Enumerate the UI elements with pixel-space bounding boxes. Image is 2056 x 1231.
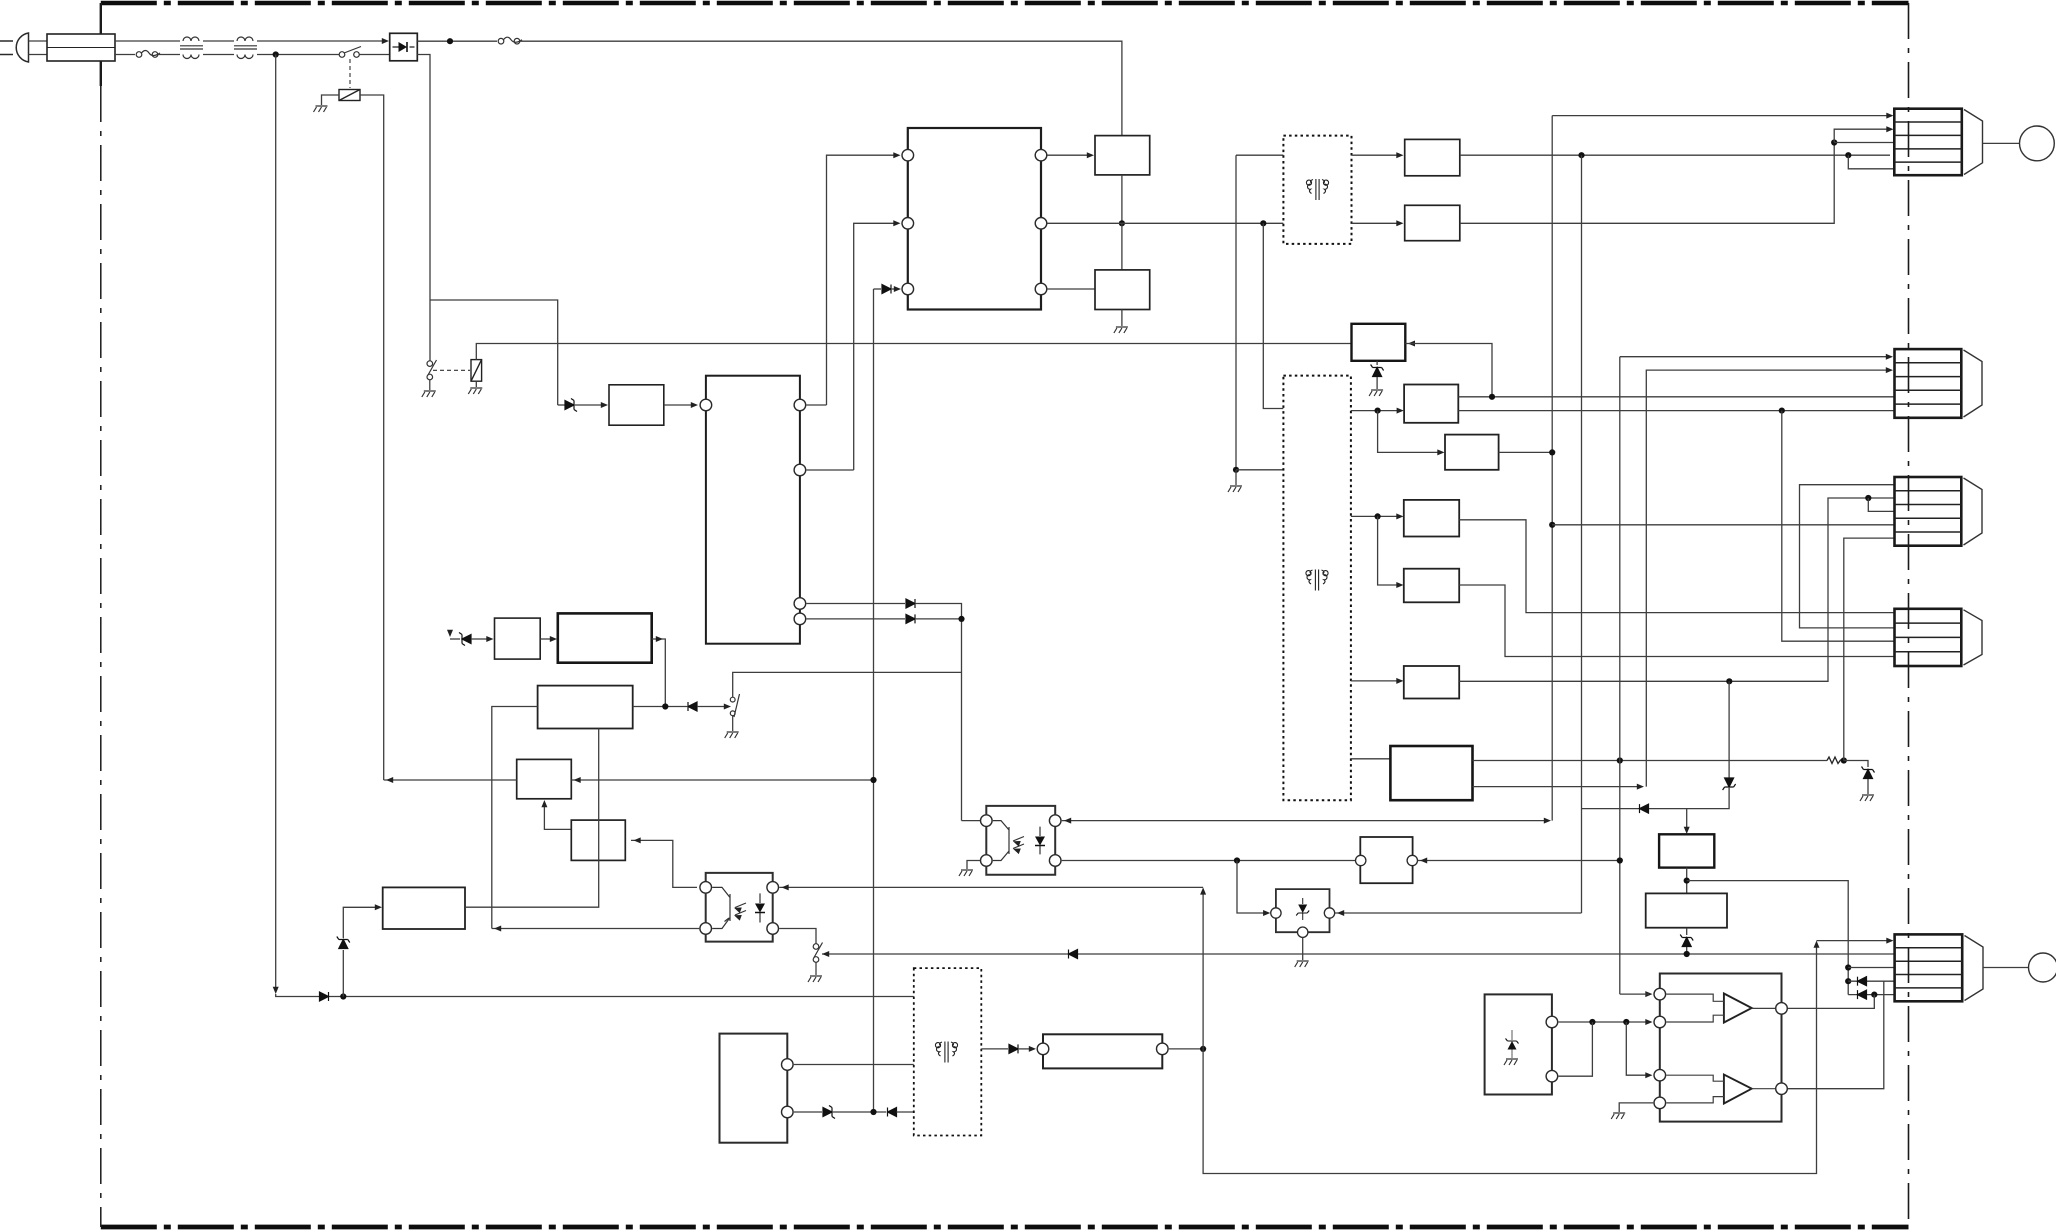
wire ZD2 to block O	[471, 638, 487, 640]
arrow into regulator M	[550, 636, 557, 642]
K pin left	[1037, 1043, 1049, 1055]
CN4 pin separators	[1895, 623, 1962, 652]
junction node B+	[447, 38, 453, 44]
junction node CN3 row2/3	[1865, 495, 1871, 501]
diode D9	[1640, 804, 1649, 813]
relay RY1 coil	[339, 90, 360, 101]
rectifier block C	[1404, 500, 1459, 537]
junction node B out	[1549, 449, 1555, 455]
arrow into PC3 left pin	[1263, 910, 1270, 916]
CN2 pin separators	[1895, 363, 1962, 404]
ground at PC3	[1295, 961, 1309, 967]
zener diode ZD4	[1371, 365, 1384, 377]
arrow into block Q	[1396, 220, 1403, 226]
arrow into CN5 row1	[1886, 938, 1893, 944]
arrow into block P	[1396, 152, 1403, 158]
CN1 pin separators	[1894, 122, 1962, 162]
wire PC1 BR to switch S4	[779, 929, 816, 944]
wire block O to regulator M	[540, 638, 551, 640]
wire A bottom output to CN2	[1458, 410, 1894, 412]
wire PC3 feed	[1237, 861, 1267, 914]
I pin bottom	[1546, 1070, 1558, 1082]
wire choke L2 to bridge (top)	[257, 40, 384, 42]
arrow into PC3 right pin	[1337, 910, 1344, 916]
wire plug to line filter	[29, 41, 48, 55]
U3 pin 5	[1776, 1003, 1788, 1015]
wire F top output rail	[1473, 760, 1828, 762]
wire CN5 row5	[1848, 994, 1894, 996]
arrow at F output corner	[1637, 784, 1644, 790]
wire R1 to relay bus corner	[384, 779, 517, 781]
wire W1 to bus1619	[1418, 860, 1620, 862]
wire G out to CN5 drops	[1687, 881, 1849, 995]
ground at primary return	[1228, 486, 1242, 492]
junction node A out / CN4 drop	[1779, 408, 1785, 414]
U1 pin 5	[1035, 218, 1047, 230]
K pin right	[1157, 1043, 1169, 1055]
wire U2 out4	[806, 618, 905, 620]
zener riser to E1	[342, 950, 344, 997]
enclosure border top	[101, 1, 1909, 6]
junction node DC bus / R1	[870, 777, 876, 783]
junction node on comm line	[1684, 951, 1690, 957]
U1 pin 4	[1035, 149, 1047, 161]
arrow down at AC sense corner	[273, 987, 279, 994]
wire corner into U1 pin3 diode	[874, 288, 882, 290]
wire diode to U1 pin3	[892, 288, 896, 290]
diode D14	[1858, 990, 1867, 999]
wire DC bus top to primary corner	[520, 41, 1122, 135]
relay RY2 coil	[471, 360, 482, 382]
U3 pin 6	[1776, 1083, 1788, 1095]
U3 pin 1	[1654, 988, 1666, 1000]
PC2 pin BL	[981, 855, 993, 867]
W1 pin left	[1356, 855, 1366, 865]
arrow into startup box	[601, 402, 608, 408]
wire U1 pin6 to SB2	[1047, 288, 1095, 290]
wire into CN5 row1	[1817, 940, 1891, 942]
PC2 pin TL	[981, 815, 993, 827]
wire filter to fuse F1 (bottom)	[115, 54, 135, 56]
wire D12 to delay line K	[1019, 1048, 1033, 1050]
wire K out to CN5 row1	[1203, 944, 1816, 1174]
wire ZD3 to E1 input	[343, 907, 376, 938]
arrow into U3 pin3	[1645, 1072, 1652, 1078]
reference block I	[1485, 994, 1552, 1094]
junction node AC-N	[273, 51, 279, 57]
aux transformer T2 (dotted)	[1283, 136, 1351, 244]
junction node G out	[1684, 878, 1690, 884]
mode switch S3	[730, 694, 739, 731]
wire D4 to bus961	[916, 604, 962, 821]
junction node F out / bus1619	[1617, 757, 1623, 763]
wire CN1 row2	[1834, 129, 1887, 142]
zener diode ZD2	[459, 633, 471, 646]
snubber block SB2	[1095, 270, 1150, 310]
signal transformer T3 (dotted)	[914, 968, 982, 1135]
I pin top	[1546, 1016, 1558, 1028]
arrow into rect A	[1397, 408, 1404, 414]
wire E1 output to block L	[465, 729, 599, 908]
connector CN1 body	[1894, 109, 1962, 176]
wire PC3 right to bus1581	[1335, 912, 1582, 914]
wire R2 right to opto PC1	[631, 840, 697, 887]
wire S3 to bus961	[733, 672, 962, 697]
arrow into CN1 row2	[1886, 126, 1893, 132]
wire aux winding feed	[1236, 155, 1283, 470]
wire drain node down to main transformer	[1263, 223, 1283, 408]
U3 op-amp 1 triangle	[1724, 994, 1752, 1023]
junction node K out	[1200, 1046, 1206, 1052]
PC2 pin BR	[1049, 855, 1061, 867]
wire drop to CN4 row3	[1782, 411, 1895, 642]
PC2 BL to ground	[967, 861, 980, 870]
op-amp block U3	[1660, 974, 1782, 1122]
ground at ZD5	[1860, 795, 1874, 801]
wire J top to T3	[794, 1064, 914, 1066]
snubber block V	[1352, 324, 1406, 361]
diode D13	[1858, 977, 1867, 986]
arrow into U1 pin1	[893, 152, 900, 158]
connector CN4 body	[1895, 609, 1962, 666]
PC1 pin BR	[767, 923, 779, 935]
earth stud circle at CN5	[2029, 953, 2056, 982]
wire block P output rail	[1460, 154, 1890, 156]
relay RY2 dashed link	[433, 369, 470, 371]
arrow into block O	[486, 636, 493, 642]
junction node bus1552 / CN3	[1549, 522, 1555, 528]
junction node DC bus end	[870, 1109, 876, 1115]
wire CN5 to earth stud	[1983, 967, 2029, 969]
diode D8 on sense line	[320, 992, 329, 1001]
wire ref b to U3 pin3	[1626, 1022, 1650, 1075]
zener diode ZD3	[337, 937, 350, 949]
ground at SB2	[1114, 327, 1128, 333]
wire SB1 bottom to node	[1121, 175, 1123, 223]
wire G output node	[1686, 868, 1688, 894]
rectifier block A	[1404, 385, 1458, 423]
U3 internal wires op2	[1666, 1075, 1775, 1103]
zener diode ZD6	[1680, 935, 1693, 947]
wire bus1552 to CN3 row4	[1552, 524, 1894, 526]
PC3 pin bottom	[1298, 927, 1308, 937]
wire sense branch	[430, 300, 558, 405]
PC1 light arrows	[733, 905, 742, 913]
wire CN1 row5 drop	[1848, 155, 1894, 169]
wire F bottom output to CN2 riser	[1473, 786, 1641, 788]
ground at S4	[808, 976, 822, 982]
comparator block J	[720, 1034, 788, 1143]
filter block W1	[1360, 837, 1412, 883]
diode D6	[688, 702, 697, 711]
junction node E out / diode drop	[1726, 678, 1732, 684]
wire sec2 drop to rect D	[1378, 516, 1400, 585]
wire R3 node to zener	[1844, 761, 1868, 768]
enclosure border bottom	[101, 1225, 1909, 1230]
arrow down at B+ drop corner	[447, 630, 453, 637]
wire drop into block G	[1686, 809, 1688, 830]
arrow into rect C	[1396, 513, 1403, 519]
junction node sense/zener	[340, 993, 346, 999]
bus wire 1646 vertical	[1646, 370, 1887, 786]
junction node ref a	[1589, 1019, 1595, 1025]
optocoupler PC3 body	[1276, 889, 1330, 932]
arrow into U3 pin1	[1645, 991, 1652, 997]
CN4 shell bracket	[1964, 610, 1983, 665]
U3 pin 3	[1654, 1069, 1666, 1081]
wire ZD1 to box startup	[575, 404, 601, 406]
wire A top output to CN2	[1458, 396, 1894, 398]
wire relay coil left to ground	[322, 95, 340, 105]
main switching IC U1	[908, 128, 1041, 310]
optocoupler PC1 body	[706, 873, 773, 942]
wire U1 pin4 to snubber SB1	[1048, 154, 1090, 156]
diode D7 on comm line	[1069, 950, 1078, 959]
rectifier block Q	[1405, 205, 1460, 240]
U3 op-amp 2 triangle	[1724, 1075, 1752, 1104]
arrow into delay line K	[1029, 1046, 1036, 1052]
snubber block SB1	[1095, 136, 1150, 175]
T2 winding symbol	[1306, 179, 1328, 200]
wire PC1 BL to corner	[492, 928, 699, 930]
T3 winding symbol	[935, 1042, 957, 1063]
regulator block M	[558, 613, 652, 662]
CN5 shell bracket	[1965, 936, 1984, 1001]
zener diode ZD1	[558, 404, 565, 406]
wire RY2 to relay rail	[476, 344, 1351, 360]
wire CN2 row1	[1620, 356, 1887, 358]
standby ldo block O	[495, 618, 541, 659]
junction node A out / V riser	[1489, 394, 1495, 400]
common-mode choke L2	[234, 37, 257, 59]
enclosure border left solid top segment	[100, 3, 102, 86]
wire node to snubber SB2	[1121, 223, 1123, 270]
arrow into CN2 row1	[1886, 354, 1893, 360]
wire I top to U3 pin2	[1558, 1021, 1650, 1023]
standby switch S2	[427, 360, 437, 390]
PC1 phototransistor	[712, 887, 746, 928]
wire U2 out1 to riser	[806, 404, 826, 406]
PFC/PWM controller U2	[706, 376, 800, 644]
wire D11 to T3	[897, 1111, 914, 1113]
bus wire 1619 vertical	[1619, 357, 1621, 994]
AC sense line	[275, 55, 277, 992]
wire U3 op2 output to CN5	[1788, 981, 1884, 1088]
junction node PC3 branch	[1234, 857, 1240, 863]
bus wire 1552 vertical	[1551, 116, 1553, 821]
wire E output rail	[1459, 498, 1894, 681]
PC3 pin right	[1324, 908, 1334, 918]
wire ZD6 to comm line	[1686, 947, 1688, 954]
delay line block K	[1043, 1034, 1162, 1068]
wire R3 riser to CN3 row5	[1844, 538, 1895, 760]
arrow into switch S3	[724, 704, 731, 710]
W1 pin right	[1407, 855, 1417, 865]
wire T2 to rectifier block P	[1352, 154, 1398, 156]
arrow into E1	[375, 904, 382, 910]
wire feedback riser to U1 pin1	[827, 155, 895, 405]
bus wire 1581 vertical	[1581, 155, 1583, 913]
wire B output to bus1552	[1499, 451, 1553, 453]
CN1 shell bracket	[1964, 110, 1983, 175]
U3 pin 4	[1654, 1097, 1666, 1109]
wire CN1 row3	[1834, 142, 1894, 144]
wire CN1 to earth stud	[1983, 142, 2020, 144]
U1 pin 6	[1035, 283, 1047, 295]
sense bus vertical	[1202, 890, 1204, 1049]
wire U2 out3	[806, 603, 905, 605]
PC2 phototransistor	[993, 821, 1024, 861]
connector CN2 body	[1895, 349, 1962, 418]
wire CN3 row3 drop	[1868, 498, 1894, 511]
junction node at M/L	[662, 703, 668, 709]
arrow up into R1 bottom	[541, 800, 547, 807]
wire fuse to choke L1 (bottom)	[158, 54, 180, 56]
PC1 pin TL	[700, 882, 712, 894]
regulator block G	[1659, 834, 1714, 867]
wire PC2 TR comm to bus1552	[1062, 820, 1549, 822]
AC plug P1	[0, 33, 29, 62]
arrow into CN2 row2	[1886, 367, 1893, 373]
rectifier block B	[1445, 435, 1499, 470]
junction node P-rail / bus1580	[1578, 152, 1584, 158]
PC2 light arrows	[1012, 838, 1021, 846]
diode D10	[1723, 778, 1736, 790]
rectifier block P	[1405, 139, 1460, 175]
wire 12V line with diode	[1582, 788, 1730, 809]
arrow up at sense bus top	[1200, 887, 1206, 894]
wire H bottom to zener	[1686, 928, 1688, 935]
wire filter to choke L1 (top)	[115, 40, 180, 42]
wire U2 out2 to riser	[806, 469, 853, 471]
junction node CN5 row3	[1845, 964, 1851, 970]
U1 pin 3	[902, 283, 914, 295]
PC3 zener symbol	[1296, 898, 1309, 920]
PC2 output diode	[1035, 827, 1045, 855]
arrow into block G	[1684, 827, 1690, 834]
arrow at PC1 BL corner	[494, 926, 501, 932]
PC1 pin TR	[767, 882, 779, 894]
T1 winding symbol	[1306, 570, 1328, 591]
main transformer T1 (dotted)	[1283, 376, 1351, 801]
arrow into bridge top input	[382, 38, 389, 44]
PC3 pin left	[1271, 908, 1281, 918]
arrow into snubber SB1	[1087, 152, 1094, 158]
wire riser to U1 pin2	[854, 223, 894, 470]
wire PC3 bottom to ground	[1302, 937, 1304, 960]
connector CN5 body	[1895, 934, 1963, 1001]
fuse F2	[498, 37, 522, 44]
common-mode choke L1	[180, 37, 203, 59]
CN3 shell bracket	[1964, 478, 1983, 545]
line filter FL1	[47, 34, 115, 61]
wire bus1619 corner to U3 pin1	[1620, 993, 1649, 995]
CN2 shell bracket	[1964, 350, 1983, 417]
arrow into CN1 row1	[1886, 113, 1893, 119]
junction node drain/T2	[1260, 220, 1266, 226]
I internal zener	[1506, 1030, 1519, 1058]
wire D10 to E-rail node	[1728, 681, 1730, 777]
arrow into R1 right edge	[574, 777, 581, 783]
wire M output down	[652, 639, 666, 707]
wire B+ drop to zener	[450, 638, 460, 640]
junction node CN5 row4	[1845, 978, 1851, 984]
PC1 pin BL	[700, 923, 712, 935]
arrow into rect D	[1396, 582, 1403, 588]
wire block L right branch	[633, 706, 687, 708]
wire SB2 to ground	[1121, 310, 1123, 327]
wire D5 to bus961	[916, 618, 962, 620]
arrow into U3 pin2	[1645, 1019, 1652, 1025]
arrow at M output corner	[656, 636, 663, 642]
CN5 pin separators	[1895, 948, 1963, 988]
wire PC1 TR sense line	[779, 886, 1203, 888]
J pin top	[782, 1059, 794, 1071]
junction node bus1619 / W1	[1617, 857, 1623, 863]
junction node sec2	[1375, 513, 1381, 519]
ground at ZD4	[1369, 390, 1383, 396]
arrow into PC2 TR	[1064, 818, 1071, 824]
arrow at relay bus corner	[386, 777, 393, 783]
J pin bottom	[782, 1106, 794, 1118]
wire D output to CN4 row4	[1459, 585, 1894, 657]
wire block L left branch	[492, 707, 538, 929]
bridge rectifier diode symbol	[393, 42, 415, 52]
junction node at SB1/SB2	[1119, 220, 1125, 226]
U2 pin out4	[794, 613, 806, 625]
PC2 pin TR	[1049, 815, 1061, 827]
wire R1 bottom to R2	[544, 807, 571, 829]
wire switch S1 to bridge (bottom)	[359, 54, 389, 56]
wire DC bus top from bridge	[417, 40, 497, 42]
arrow into bus1552	[1544, 818, 1551, 824]
diode D11	[888, 1108, 897, 1117]
ground at PC2	[959, 870, 973, 876]
junction node Q-rail riser	[1831, 139, 1837, 145]
enclosure border left	[100, 86, 102, 1227]
wire U1 pin5 drain line	[1048, 222, 1284, 224]
error amp block E1	[383, 887, 465, 929]
U1 pin 1	[902, 149, 914, 161]
power switch S1	[339, 47, 361, 58]
connector CN3 body	[1895, 477, 1962, 546]
ground at S3	[725, 732, 739, 738]
wire sec1 drop to rect B	[1378, 411, 1441, 453]
output block F	[1390, 746, 1472, 800]
wire D6 to switch S3	[697, 706, 729, 708]
diode D4	[906, 599, 915, 608]
wire CN1 row1	[1552, 115, 1887, 117]
rectifier block E	[1404, 666, 1459, 699]
U3 internal wires op1	[1666, 994, 1775, 1022]
wire ZD5 to ground	[1867, 779, 1869, 794]
wire J bottom to zener	[794, 1111, 822, 1113]
wire U3 op1 output to CN5	[1788, 995, 1874, 1009]
wire node to main transformer primary	[1236, 469, 1283, 471]
earth stud circle at CN1	[2020, 126, 2055, 161]
ground at U3 pin4	[1611, 1113, 1625, 1119]
wire bridge bottom output	[417, 55, 430, 361]
protection block R2	[571, 820, 625, 860]
wire CN5 row4	[1848, 980, 1894, 982]
wire bus961 corner to PC2	[962, 820, 981, 822]
rectifier block D	[1404, 569, 1459, 603]
zener diode ZD7	[823, 1106, 835, 1119]
wire CN5 row3	[1848, 967, 1894, 969]
arrow into rect E	[1396, 678, 1403, 684]
ground at S2	[422, 391, 436, 397]
relay RY1 dashed link	[349, 59, 351, 88]
